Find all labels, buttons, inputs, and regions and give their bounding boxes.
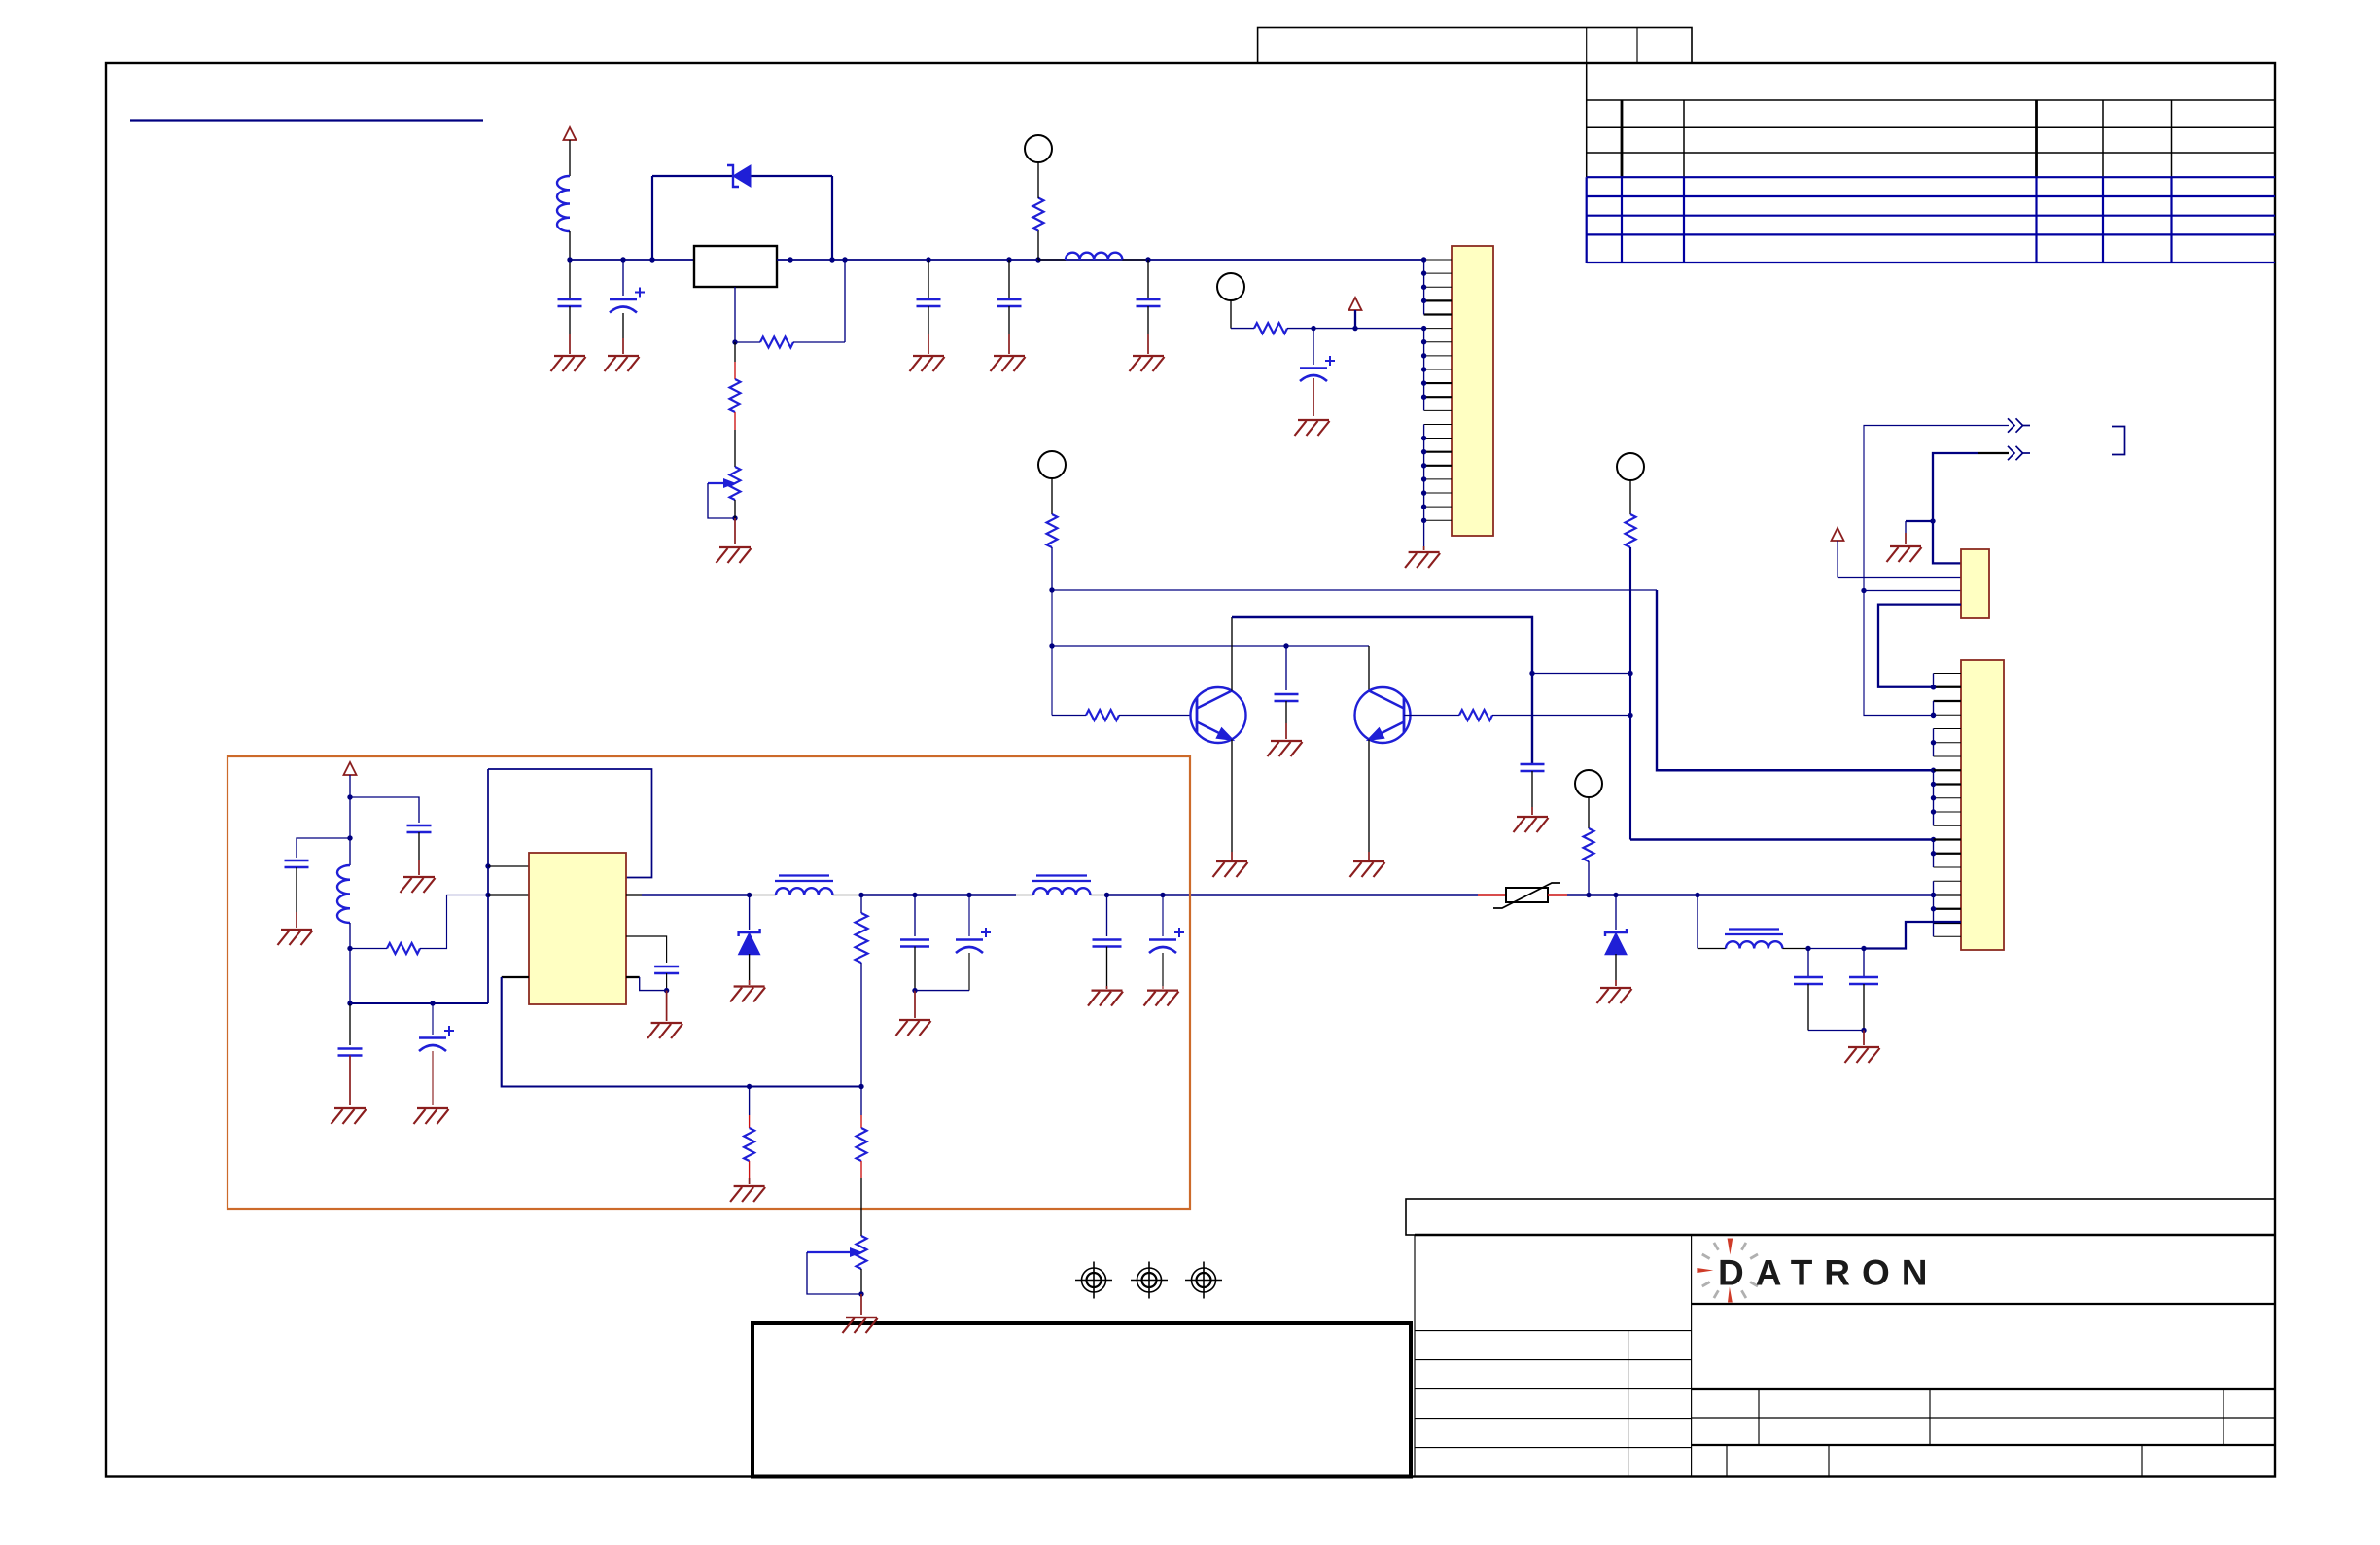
svg-text:DATRON: DATRON (1718, 1253, 1940, 1293)
